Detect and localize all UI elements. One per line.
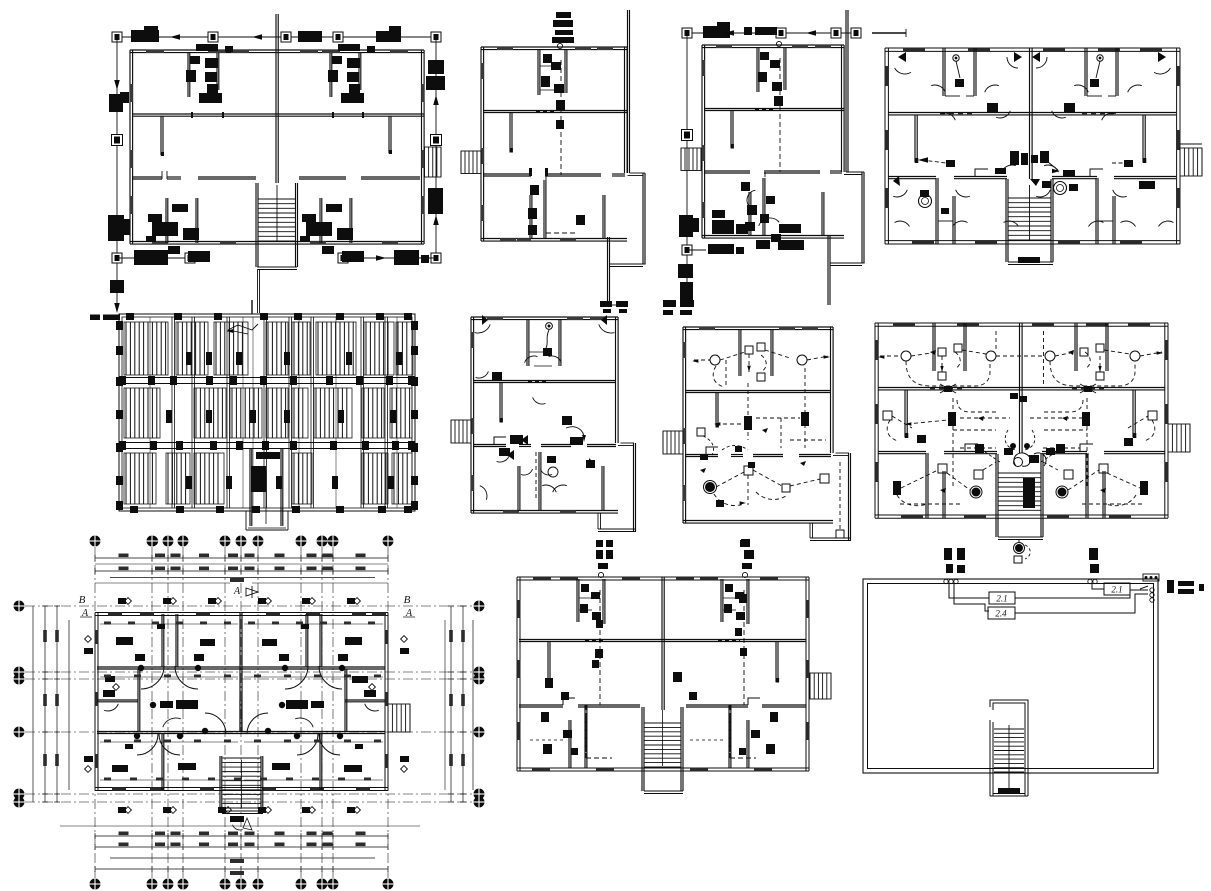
plan 1 bottom-left bath fixtures <box>172 204 188 212</box>
plan 9 centre stair door arcs <box>205 713 226 734</box>
plan 10 lower horizontal wall <box>519 704 563 706</box>
plan 9 interior dimension tick rows upper <box>100 623 238 625</box>
plan 1 top-right toilet fixtures <box>338 44 360 51</box>
plan 9 lower partitions <box>161 734 163 790</box>
plan 9 interior diamonds <box>85 636 92 643</box>
plan 3 top annotation arrows <box>724 30 734 36</box>
plan 8 exterior walls <box>875 322 1168 324</box>
plan 11 roof outline outer <box>863 579 1158 773</box>
plan 9 hall label bars <box>160 701 173 708</box>
plan 9 upper room label bars <box>116 637 133 645</box>
plan 9 upper double door arcs right <box>285 666 308 689</box>
plan 9 lower interior wall <box>97 731 385 733</box>
plan 9 left grid bubbles <box>14 601 25 612</box>
plan 7 switch cluster left <box>697 428 705 436</box>
plan 10 stairwell <box>641 707 643 791</box>
plan 6 lower partitions <box>517 466 519 511</box>
plan 8 bottom-left bath walls <box>925 453 927 518</box>
plan 5 vertical beams <box>171 317 173 508</box>
plan 3 wiring arcs lower <box>747 190 755 205</box>
plan 1 upper wall door ticks <box>191 112 193 118</box>
plan 5 outer walls <box>119 314 415 511</box>
plan 9 interior dimension tick rows bottom <box>100 779 238 781</box>
plan 4 mid-left switch leader <box>918 157 928 163</box>
plan 3 top toilet walls <box>756 47 758 92</box>
plan 9 left wing rooms <box>137 669 139 732</box>
plan 8 extra wiring loops mid band <box>957 400 996 412</box>
plan 8 window breaks top <box>893 323 915 327</box>
plan 7 right extension <box>836 452 850 454</box>
plan 1 bottom-right bath fixtures <box>326 204 342 212</box>
plan 7 wiring dashed top room <box>694 359 710 361</box>
plan 5 column blocks beam 1 <box>119 376 126 385</box>
plan 1 bottom annotation right <box>343 257 436 259</box>
plan 8 top-left closet walls <box>932 323 934 371</box>
plan 8 window breaks bottom <box>901 515 923 519</box>
plan 2 bottom window breaks <box>517 238 531 241</box>
plan 1 exterior walls <box>130 49 424 51</box>
plan 6 lower horizontal wall <box>473 444 506 446</box>
plan 7 extra wiring details <box>725 360 727 388</box>
plan 2 roof projection line right <box>627 10 629 173</box>
plan 6 exterior walls <box>471 316 618 318</box>
plan 9 stair bottom details <box>230 816 244 822</box>
plan 9 interior dimension tick rows lower <box>100 741 238 743</box>
plan 1 top-right toilet walls <box>329 53 331 97</box>
plan 7 ceiling lights top <box>710 355 720 365</box>
plan 8 stairwell <box>995 454 997 537</box>
plan 9 window marks side walls <box>95 630 99 644</box>
plan 3 roof projection line right <box>845 10 847 172</box>
plan 3 annotation top line <box>687 32 856 34</box>
plan 4 lower corner door arcs <box>895 221 910 226</box>
plan 3 toilet wiring fixtures <box>760 52 769 60</box>
plan 5 grid bubbles below <box>148 536 158 546</box>
plan 5 stair black marks <box>256 452 280 459</box>
plan 11 conduit run to right <box>1015 590 1148 598</box>
plan 4 ref mark above <box>872 32 906 34</box>
plan 9 stairwell walls <box>219 756 221 811</box>
plan 2 toilet fixtures <box>543 54 552 63</box>
plan 11 stair bottom mark <box>998 788 1020 793</box>
plan 2 plumbing riser dashed <box>560 60 562 175</box>
plan 5 column blocks left wall <box>116 321 123 330</box>
plan 10 lower-right fixtures <box>673 672 682 682</box>
plan 11 legend marks right side <box>1167 580 1174 593</box>
plan 2 stub wall <box>509 113 511 151</box>
plan 7 top toilet walls <box>738 329 740 376</box>
plan 10 right exterior stair <box>810 673 831 699</box>
plan 11 fuse box 2.4 left <box>988 607 1015 619</box>
plan 4 upper horizontal wall <box>888 112 1176 114</box>
svg-text:2.4: 2.4 <box>995 609 1007 619</box>
plan 9 centre party wall <box>239 613 241 733</box>
plan 1 lower horizontal wall with door gaps <box>132 176 162 178</box>
plan 2 left entry stair <box>461 151 481 174</box>
plan 8 ceiling lights <box>901 351 911 361</box>
plan 6 mid room blob <box>492 372 502 380</box>
plan 5 thin projection verticals <box>149 317 151 508</box>
plan 9 left dimension lines <box>44 606 46 802</box>
plan 9 hall door arcs mid wall <box>163 718 181 727</box>
plan 9 bottom dimension lines <box>95 835 388 837</box>
plan 4 window breaks top <box>903 48 925 52</box>
plan 7 bottom blob <box>741 539 750 547</box>
plan 4 stair flight <box>1008 197 1051 199</box>
plan 3 left entry stair <box>681 148 701 171</box>
plan 8 right entry stair <box>1168 424 1190 452</box>
plan 1 bottom-right bath walls <box>319 198 321 243</box>
plan 6 hall blobs <box>562 416 572 425</box>
plan 4 exterior walls <box>885 47 1180 49</box>
plan 9 upper apartment entry partitions <box>161 614 163 667</box>
plan 6 stub wall <box>499 383 501 421</box>
plan 4 top-right closet lamp <box>1097 55 1103 61</box>
plan 7 wiring mid connections <box>716 423 744 425</box>
plan 4 window breaks sides <box>885 66 889 86</box>
plan 1 left rail text blobs <box>109 94 123 112</box>
svg-text:2.1: 2.1 <box>996 594 1007 604</box>
plan 6 window breaks <box>487 317 503 320</box>
plan 6 top room door arcs <box>475 324 491 333</box>
plan 5 joist hatch row 3 <box>124 453 156 504</box>
plan 5 small north arrow sketch <box>228 324 258 330</box>
plan 2 riser legend blobs above <box>556 12 571 18</box>
plan 5 interior beam band 2 <box>122 442 412 444</box>
plan 7 wiring risers dashed <box>747 383 749 440</box>
plan 7 stub wall <box>715 392 717 426</box>
plan 1 right rail text blobs <box>428 60 444 74</box>
plan 2 window breaks <box>497 47 513 50</box>
plan 9 diamonds top row <box>125 598 132 605</box>
plan 9 exterior walls <box>95 612 388 614</box>
plan 6 lower blobs <box>547 456 556 463</box>
plan 9 top dimension lines <box>95 557 388 559</box>
plan 3 riser dashed lines <box>779 58 781 172</box>
plan 2 exterior walls <box>481 46 627 48</box>
plan 3 lower horizontal wall <box>704 170 750 172</box>
plan 10 lower partitions right <box>746 720 748 768</box>
plan 5 left leader arrow and bar <box>90 315 100 321</box>
plan 9 top row tick blobs <box>118 598 126 604</box>
plan 6 right extension <box>621 442 635 444</box>
plan 11 right edge terminal box <box>1143 574 1159 581</box>
plan 5 column blocks beam 2 <box>119 441 126 450</box>
plan 1 center party wall <box>275 14 277 183</box>
plan 5 column blocks bottom wall <box>130 506 138 513</box>
plan 8 wiring mid band <box>948 412 956 426</box>
plan 9 top grid bubbles <box>90 536 101 547</box>
plan 10 lower dotted runs <box>530 739 566 741</box>
plan 4 mid-right switch leader <box>1124 160 1133 167</box>
plan 3 stub wall <box>730 111 732 147</box>
plan 10 left toilet walls <box>576 579 578 622</box>
plan 10 centre party wall <box>661 577 663 710</box>
plan 9 extra frame lines <box>95 563 388 565</box>
plan 8 bottom-right bath walls <box>1085 453 1087 518</box>
plan 1 stair flight <box>259 198 296 200</box>
plan 4 bottom-left bath fixtures <box>919 195 932 208</box>
plan 7 junction boxes top <box>745 346 753 354</box>
plan 8 junction boxes top <box>938 348 946 356</box>
plan 6 toilet lamp and blob <box>546 323 553 330</box>
plan 5 top tick <box>251 300 253 314</box>
plan 6 left entry stair <box>451 420 471 443</box>
plan 9 upper wall small ticks <box>157 624 165 629</box>
plan 8 centre stair swirl cluster <box>1029 455 1039 463</box>
plan 9 diamonds bottom row <box>125 807 132 814</box>
plan 8 center party wall <box>1019 323 1021 453</box>
plan 7 lower lights and boxes <box>705 482 715 492</box>
plan 1 top annotation text blobs <box>131 30 159 42</box>
plan 9 stair flight <box>223 757 261 759</box>
plan 1 mid horizontal wall upper <box>132 113 424 115</box>
plan 8 lower band long dashed runs <box>900 503 960 505</box>
plan 10 window breaks top <box>533 577 551 581</box>
plan 4 top-right closet walls <box>1084 48 1086 96</box>
plan 9 upper interior wall <box>97 666 385 668</box>
plan 9 lower room label bars <box>112 765 128 772</box>
plan 7 left entry stair <box>663 431 683 454</box>
plan 4 mid band stub walls <box>914 115 916 162</box>
svg-text:B: B <box>79 594 86 606</box>
plan 10 window breaks bottom <box>532 768 550 772</box>
plan 3 bottom annotation <box>687 249 706 251</box>
plan 10 right toilet walls <box>720 579 722 622</box>
plan 11 legend marks above left <box>944 548 952 560</box>
plan 4 top-left closet lamp <box>953 55 959 61</box>
plan 7 legend bars above <box>663 300 676 307</box>
svg-text:2.1: 2.1 <box>1111 585 1122 595</box>
plan 1 window break marks on exterior walls <box>146 50 164 53</box>
plan 6 legend bars above <box>600 301 612 307</box>
plan 6 top toilet walls <box>526 319 528 366</box>
plan 9 bottom grid bubbles <box>90 879 101 890</box>
plan 10 right toilet fixtures <box>725 584 733 592</box>
plan 11 fuse box 2.1 right <box>1104 583 1130 595</box>
plan 9 interior dimension tick rows mid <box>100 676 238 678</box>
plan 11 top connector circles left <box>944 579 948 583</box>
plan 9 vertical grid dashed lines <box>94 547 96 878</box>
plan 5 interior beam band 1 <box>122 377 412 379</box>
plan 8 wiring dashed top band <box>880 355 901 357</box>
plan 8 stair bottom wiring <box>1015 544 1023 552</box>
plan 4 lower door arcs <box>893 190 907 197</box>
plan 10 legend bars above left <box>596 540 603 547</box>
plan 9 window marks top wall <box>108 612 122 616</box>
plan 1 stub wall below upper wall left <box>160 116 162 155</box>
plan 11 conduit run left <box>949 584 989 598</box>
plan 7 exterior walls <box>683 326 833 328</box>
plan 3 annotation node boxes top <box>682 28 692 38</box>
plan 2 lower horizontal wall <box>483 173 531 175</box>
plan 4 bottom-right bath walls <box>1095 178 1097 244</box>
plan 3 top annotation blobs <box>703 26 730 38</box>
plan 4 center party wall <box>1029 48 1031 179</box>
plan 1 bottom annotation left <box>117 257 188 259</box>
plan 11 top connector circles right <box>1088 579 1092 583</box>
plan 7 lower horizontal wall <box>685 454 718 456</box>
plan 4 lower horizontal wall segments <box>888 176 936 178</box>
plan 5 column blocks top wall <box>126 313 134 320</box>
plan 7 lower wiring dashed <box>716 472 744 487</box>
plan 3 lower right room walls <box>821 192 823 236</box>
plan 2 right extension boundary <box>630 172 646 174</box>
plan 4 stairwell <box>1005 179 1007 262</box>
plan 9 right dimension lines <box>450 606 452 802</box>
plan 11 legend marks above right <box>1089 548 1098 560</box>
plan 1 ground floor: annotation loop top line <box>117 36 436 38</box>
plan 1 annotation left rail <box>116 37 118 310</box>
plan 11 roof outline inner <box>868 584 1154 769</box>
plan 2 mid horizontal wall <box>483 110 627 112</box>
plan 1 annotation node boxes top <box>112 32 122 42</box>
plan 1 top-left toilet fixtures <box>196 44 218 51</box>
plan 1 top annotation arrows <box>170 34 180 40</box>
plan 10 legend bars above right <box>740 540 749 547</box>
plan 10 stub walls <box>547 641 549 682</box>
plan 8 stair flight <box>998 472 1041 474</box>
plan 10 mid horizontal wall <box>519 639 806 641</box>
plan 4 central fixture cluster <box>1010 151 1019 165</box>
plan 11 conduit run right <box>1092 584 1104 589</box>
plan 4 right entry stair <box>1180 148 1202 176</box>
plan 9 upper double door arcs left <box>141 666 164 689</box>
plan 11 fuse box 2.1 left <box>989 592 1015 604</box>
plan 1 right rail box <box>431 253 441 263</box>
plan 5 joist hatch row 2 <box>124 388 160 438</box>
plan 6 lower room arcs <box>521 469 533 475</box>
plan 10 stair flight <box>644 722 681 724</box>
plan 1 annotation right rail <box>435 37 437 258</box>
plan 4 top room door arcs <box>895 68 911 74</box>
plan 7 window breaks <box>699 327 715 330</box>
plan 10 left toilet fixtures <box>581 584 589 592</box>
plan 2 riser blobs <box>556 120 564 129</box>
plan 9 right wing rooms <box>344 669 346 732</box>
plan 8 upper horizontal wall <box>878 387 1165 389</box>
plan 5 stair protrusion <box>245 511 247 530</box>
plan 1 stairwell walls <box>255 183 257 267</box>
plan 9 right exterior stair <box>388 704 410 732</box>
plan 3 annotation left rail <box>686 33 688 303</box>
plan 2 lower partition walls <box>529 195 531 239</box>
plan 3 window breaks <box>716 45 732 48</box>
plan 3 exterior walls <box>702 44 844 46</box>
plan 7 flag pole wiring <box>839 462 841 530</box>
plan 10 exterior walls <box>517 576 809 578</box>
plan 8 extra wiring arrows <box>930 350 936 355</box>
plan 4 window breaks bottom <box>912 240 934 244</box>
plan 8 junction cross marks on mid wall <box>944 386 952 392</box>
plan 5 column blocks right wall <box>411 321 418 330</box>
plan 6 riser dash lower <box>535 452 537 500</box>
plan 11 stair enclosure <box>990 700 1028 773</box>
plan 1 stub wall right wing <box>388 116 390 153</box>
plan 8 mid band stub walls <box>904 390 906 437</box>
plan 10 lower partitions left <box>568 720 570 768</box>
plan 8 lower band wiring <box>938 464 947 473</box>
plan 9 horizontal grid dashed lines <box>25 605 473 607</box>
plan 6 mid horizontal wall <box>473 380 616 382</box>
plan 8 top-right closet walls <box>1074 323 1076 371</box>
plan 8 vertical riser wires <box>952 398 954 487</box>
plan 3 left rail blobs <box>679 215 693 237</box>
plan 10 riser dash marks <box>596 620 603 628</box>
plan 4 door arcs upper wall <box>931 85 945 92</box>
svg-text:B: B <box>404 594 411 606</box>
plan 4 bottom-left bath walls <box>935 178 937 244</box>
plan 9 lower apartment door arcs <box>137 734 158 755</box>
plan 3 right extension boundary <box>846 171 864 173</box>
plan 8 extra wiring loops upper band <box>906 361 990 386</box>
plan 10 riser dashed lines right <box>743 590 745 705</box>
plan 5 joist hatch row 1 <box>124 322 168 375</box>
plan 1 bottom-left bath walls <box>165 198 167 243</box>
svg-text:A: A <box>233 586 241 597</box>
plan 11 stair flight <box>994 728 1024 730</box>
plan 4 top-left closet walls <box>942 48 944 96</box>
plan 1 right entry stair <box>425 147 442 177</box>
plan 7 mid horizontal wall <box>685 390 831 392</box>
plan 8 lower horizontal wall segments <box>878 451 926 453</box>
plan 9 hall centre stub <box>239 700 241 732</box>
plan 1 top-left toilet walls <box>187 53 189 97</box>
plan 1 left rail boxes <box>112 135 123 146</box>
plan 5 mid-span column marks <box>186 352 192 365</box>
plan 4 door arcs on mid wall with blobs <box>996 111 1010 118</box>
plan 5 stair box interior <box>249 449 251 526</box>
plan 10 lower-left fixtures <box>545 678 553 688</box>
plan 4 bottom-right bath fixtures <box>1054 182 1067 195</box>
plan 8 centre cluster <box>1010 393 1018 399</box>
plan 10 riser dashed lines left <box>599 590 601 705</box>
plan 6 centre wall arcs <box>533 397 546 404</box>
plan 2 top toilet walls <box>537 49 539 95</box>
plan 9 window marks bottom wall <box>112 787 126 791</box>
plan 3 lower bath cluster <box>748 192 750 236</box>
plan 9 right grid bubbles <box>474 601 485 612</box>
plan 3 mid horizontal wall <box>704 108 844 110</box>
plan 9 top dimension ticks and text <box>119 554 129 558</box>
plan 6 lower-left room fixtures <box>510 435 523 444</box>
